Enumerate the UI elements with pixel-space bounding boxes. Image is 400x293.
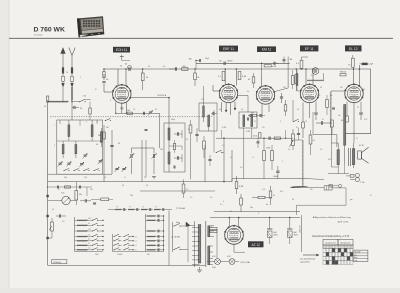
switch row R3 cap — [157, 230, 159, 233]
svg-text:0,1: 0,1 — [52, 209, 54, 211]
wire EL12 bottom drops — [346, 102, 348, 116]
svg-text:5: 5 — [282, 161, 283, 163]
wire HT bus top — [210, 217, 300, 219]
resistor top R3 — [182, 68, 189, 71]
IF2L coil b — [208, 115, 210, 126]
ground tuning — [152, 176, 156, 178]
resistor EL12 grid R — [331, 120, 334, 127]
svg-text:0,4: 0,4 — [330, 95, 332, 97]
switch row L1 coil — [77, 219, 88, 221]
coil row group 1 — [115, 209, 122, 211]
wave trap on bus — [312, 68, 319, 75]
wire EF11 top leads — [305, 69, 307, 85]
capacitor osc C3 — [142, 112, 144, 115]
capacitor mixer C5 — [110, 144, 113, 146]
svg-text:0,1µF: 0,1µF — [368, 64, 374, 66]
IF1 primary cap — [176, 132, 178, 135]
svg-text:60: 60 — [104, 177, 106, 179]
svg-text:4,5 W: 4,5 W — [359, 145, 364, 147]
wire tuning gang link — [132, 147, 155, 149]
wire lower vertical a — [204, 145, 206, 182]
resistor det series R — [274, 137, 280, 139]
resistor mixer R6 — [103, 132, 106, 139]
mains switch upper — [174, 223, 180, 226]
svg-text:60: 60 — [219, 109, 221, 111]
svg-text:901.532 A: 901.532 A — [158, 94, 167, 97]
volume potentiometer — [292, 134, 295, 146]
svg-text:3: 3 — [280, 121, 281, 123]
wire mains vertical 2 — [172, 222, 174, 252]
wire EBF11 right lead — [238, 95, 248, 97]
svg-text:EBF 11: EBF 11 — [223, 47, 234, 51]
IF1 secondary cap — [176, 156, 178, 159]
tube label EF 11 — [300, 45, 318, 51]
svg-text:60: 60 — [96, 144, 98, 146]
capacitor coupling EF-EL — [320, 121, 322, 125]
wire IF1 inner stubs — [169, 145, 182, 147]
resistor AF lower R3 — [309, 135, 312, 144]
wire IF2R bottom drops — [243, 128, 245, 179]
wire EBF to IF2R — [247, 96, 249, 113]
capacitor antenna C1 — [73, 106, 75, 109]
switch row M3 contact a — [114, 243, 119, 245]
svg-text:0,5M: 0,5M — [266, 148, 270, 150]
pack coil 1 — [68, 125, 70, 137]
svg-text:5k: 5k — [247, 91, 249, 93]
diode plate arrow 1 — [225, 110, 227, 112]
svg-text:30: 30 — [125, 64, 127, 66]
wire heater vertical — [216, 229, 218, 258]
switch osc — [105, 119, 110, 121]
wire tone links — [48, 237, 52, 239]
header rule — [9, 37, 393, 39]
IF3 coil — [296, 74, 298, 86]
svg-text:a: a — [86, 121, 87, 123]
svg-text:5,1: 5,1 — [135, 241, 137, 243]
coil row group 4 — [154, 209, 161, 211]
table header Wellenbereich — [338, 239, 353, 245]
row187 cap a — [56, 186, 58, 189]
svg-text:100: 100 — [189, 59, 192, 61]
svg-text:UKW-Teil: UKW-Teil — [299, 225, 301, 233]
svg-text:0,15: 0,15 — [280, 191, 283, 193]
svg-text:150: 150 — [84, 177, 87, 179]
wire antenna left lead — [62, 87, 64, 102]
svg-text:RM 304: RM 304 — [340, 72, 346, 74]
left page margin shading — [0, 0, 9, 293]
pilot lamp 1 — [215, 259, 221, 265]
row187 wire — [48, 186, 92, 188]
row187 drop — [86, 187, 88, 196]
svg-text:4µ: 4µ — [266, 204, 268, 206]
resistor det lower R2 — [271, 151, 274, 161]
pointer arrow — [303, 254, 317, 256]
resistor HT R2 — [258, 196, 265, 198]
svg-text:5,2: 5,2 — [88, 248, 90, 250]
svg-text:50: 50 — [80, 108, 82, 110]
svg-text:2: 2 — [80, 77, 81, 79]
power transformer secondary bottom — [208, 246, 210, 265]
trimmer osc — [149, 111, 152, 113]
output transformer core — [348, 148, 350, 166]
svg-text:1,2: 1,2 — [135, 245, 137, 247]
svg-text:30: 30 — [120, 66, 122, 68]
potentiometer tone — [51, 222, 54, 231]
trimmer row 1 — [115, 167, 118, 169]
resistor EM grid R — [252, 77, 255, 83]
svg-text:4,3: 4,3 — [62, 221, 64, 223]
switch row R5 cap — [157, 239, 159, 242]
AF return line — [290, 187, 309, 189]
resistor below bus — [182, 184, 185, 193]
wire IF1 top lead — [168, 98, 170, 124]
capacitor EL12 bypass C — [359, 112, 363, 114]
power transformer taps — [192, 226, 200, 228]
pack switch 1 — [64, 169, 69, 171]
capacitor grid C2 — [102, 81, 105, 83]
switch row R6 cap — [157, 244, 159, 247]
pack switch 3 — [84, 169, 89, 171]
switch row R5 coil — [147, 240, 156, 242]
svg-text:9,4: 9,4 — [311, 75, 314, 77]
svg-text:8,2: 8,2 — [186, 139, 188, 141]
svg-text:T. A.: T. A. — [360, 181, 365, 184]
svg-text:500: 500 — [160, 149, 163, 151]
svg-text:2,5: 2,5 — [190, 197, 192, 199]
pack top stubs — [59, 120, 61, 124]
tube ECH11 — [113, 85, 131, 103]
resistor EF11 left R — [295, 75, 298, 84]
terminal square 2 — [46, 215, 48, 217]
power transformer core — [194, 221, 196, 267]
antenna coil L1 — [71, 87, 73, 101]
switch row M3 contact b — [124, 243, 129, 245]
terminal square 3 — [46, 237, 48, 239]
svg-text:0,1: 0,1 — [135, 236, 137, 238]
svg-text:Kunstleder: Kunstleder — [34, 34, 43, 37]
switch row L2 coil — [77, 224, 88, 226]
capacitor EF11 bypass — [314, 112, 317, 114]
svg-text:2k: 2k — [198, 77, 200, 79]
IF2R coil b — [251, 115, 253, 127]
wire EF-EL coupling — [313, 134, 337, 136]
svg-text:0,1: 0,1 — [163, 66, 166, 68]
svg-text:7,5: 7,5 — [88, 234, 90, 236]
IF1 primary coil — [168, 128, 170, 140]
wire AZ12 cathode out — [233, 244, 235, 252]
svg-text:7,5k: 7,5k — [83, 96, 87, 98]
output transformer secondary — [352, 149, 354, 165]
resistor mid R 0,2M — [235, 182, 238, 189]
wire left border drop — [47, 100, 49, 265]
resistor EM11 lower R — [284, 105, 287, 111]
svg-text:350: 350 — [147, 254, 150, 256]
svg-text:5,15: 5,15 — [88, 218, 91, 220]
wire pot links — [48, 200, 62, 202]
tube label EL 12 — [345, 45, 362, 51]
svg-text:10t: 10t — [219, 60, 222, 63]
svg-text:5k: 5k — [146, 77, 148, 79]
switch det — [216, 150, 222, 152]
svg-text:1M: 1M — [183, 66, 186, 68]
svg-text:500: 500 — [64, 177, 67, 179]
speaker cone — [362, 147, 369, 163]
wire detector output line — [216, 137, 293, 139]
svg-text:4: 4 — [110, 100, 111, 102]
wire HT line upper — [214, 211, 300, 213]
antenna plug 1 — [62, 67, 64, 73]
capacitor coupling top — [174, 67, 176, 71]
IF2 left enclosure — [199, 103, 217, 131]
table header Drucktasten — [323, 239, 338, 245]
svg-text:Netz: Netz — [176, 221, 180, 224]
svg-text:1M: 1M — [290, 59, 293, 61]
tube label AZ 12 — [248, 241, 264, 247]
svg-text:350: 350 — [362, 89, 365, 91]
pack trimmer 4 — [80, 163, 83, 165]
switch row M1 contact b — [124, 234, 129, 236]
antenna arrow down 2 — [71, 83, 74, 87]
resistor below bus R — [194, 73, 197, 80]
switch row L5 coil — [77, 240, 88, 242]
capacitor EF lower — [297, 132, 300, 134]
capacitor lower C a — [84, 199, 86, 202]
tube label EBF 11 — [219, 46, 238, 52]
tube label ECH 11 — [113, 47, 130, 53]
ground ECH11 cathode — [120, 107, 124, 109]
svg-text:0,1M: 0,1M — [222, 127, 226, 129]
svg-text:2x5000: 2x5000 — [117, 254, 122, 256]
svg-text:7,7: 7,7 — [129, 206, 131, 208]
pointer line — [301, 215, 303, 252]
svg-text:1k: 1k — [273, 195, 275, 197]
resistor EF11 top R — [300, 60, 303, 68]
resistor grid R2 — [103, 72, 105, 78]
wire right HT drop — [370, 69, 372, 134]
heater resistor 1 — [209, 227, 217, 229]
resistor mid R 1k — [269, 191, 272, 198]
svg-text:50: 50 — [230, 211, 232, 213]
wire bottom border — [48, 264, 205, 266]
IF1 secondary coil — [168, 152, 170, 164]
svg-text:0,3: 0,3 — [240, 167, 242, 169]
antenna dipole symbol — [69, 48, 72, 56]
phone jack plug bar — [350, 175, 354, 178]
shielded AF lead — [302, 140, 304, 187]
svg-text:vom Schalterknopf: vom Schalterknopf — [300, 257, 316, 260]
svg-text:2,7k: 2,7k — [201, 99, 204, 101]
svg-text:Klangtasten: Klangtasten — [340, 241, 351, 244]
antenna coupling coil L2 — [48, 101, 68, 103]
wire IF2L top — [203, 86, 205, 103]
wire B+ top bus — [118, 68, 371, 70]
field coil choke — [344, 105, 346, 146]
svg-text:30: 30 — [122, 185, 124, 187]
aux socket pair — [329, 185, 332, 187]
resistor EL12 cathode R — [346, 116, 349, 122]
wire coil row link — [108, 209, 115, 211]
switch row L3 contact — [88, 230, 93, 232]
svg-text:50k: 50k — [79, 194, 82, 196]
svg-text:1,5: 1,5 — [133, 109, 135, 111]
wire OT left vertical — [330, 128, 332, 167]
table row labels — [353, 250, 368, 261]
diode plate arrow 2 — [234, 108, 236, 110]
wire EM11 bottom leads — [261, 104, 263, 118]
mains plug — [186, 222, 190, 227]
svg-text:0,1: 0,1 — [88, 223, 90, 225]
ECH11 top cap stub — [121, 55, 123, 61]
wire EM11 top lead — [261, 75, 263, 86]
pack trimmer 2 — [59, 162, 62, 164]
junction cluster above bus — [195, 60, 196, 61]
svg-text:b: b — [97, 121, 98, 123]
svg-text:50k: 50k — [127, 110, 130, 112]
IF2L cap — [212, 112, 214, 115]
IF1 inner cap — [173, 166, 175, 169]
svg-text:200: 200 — [130, 195, 133, 197]
svg-text:10: 10 — [148, 66, 150, 68]
switch row R2 cap — [157, 219, 159, 222]
power transformer primary — [198, 225, 201, 264]
svg-text:Drucktasten: Drucktasten — [325, 241, 337, 244]
svg-text:4k: 4k — [248, 79, 250, 81]
wire EF11 bottom drops — [302, 102, 304, 122]
tube EM11 — [256, 86, 274, 104]
svg-text:Lang: Lang — [354, 260, 358, 262]
switch row L4 contact — [88, 236, 93, 238]
wire mid bus — [48, 181, 232, 183]
switch row M4 contact b — [124, 248, 129, 250]
antenna arrow down 1 — [62, 83, 65, 87]
switch row R1 cap — [157, 215, 159, 218]
resistor HT R — [240, 198, 243, 205]
wire osc drop — [159, 113, 161, 148]
resistor EL12 bus R — [340, 74, 346, 76]
svg-text:0,1: 0,1 — [296, 127, 299, 129]
pack trimmer 1 — [84, 154, 87, 156]
wire lower vertical b — [223, 138, 225, 181]
svg-text:1,2k: 1,2k — [262, 189, 265, 191]
cluster near EM — [283, 59, 286, 61]
svg-text:30,5k: 30,5k — [253, 136, 257, 138]
resistor left border — [46, 96, 48, 102]
svg-text:Gezeichnete Schalterstellung: Gezeichnete Schalterstellung „U K W “ — [312, 235, 351, 238]
svg-text:30pF ± 10%: 30pF ± 10% — [338, 222, 349, 224]
svg-text:30: 30 — [155, 109, 157, 111]
wire ECH11 cathode leads — [115, 102, 117, 113]
svg-text:4: 4 — [258, 213, 259, 215]
switch row M1 contact a — [114, 234, 119, 236]
tube EBF11 — [219, 84, 237, 102]
resistor det lower R1 — [263, 151, 266, 161]
svg-text:0,1: 0,1 — [313, 140, 316, 142]
svg-text:10000: 10000 — [227, 61, 232, 63]
svg-text:80: 80 — [292, 199, 294, 201]
wire bank verticals right — [163, 216, 165, 252]
wire antenna right lead — [71, 101, 73, 121]
svg-text:30: 30 — [211, 226, 213, 228]
table data cells — [323, 248, 326, 252]
phone jack 2 — [355, 178, 359, 182]
svg-text:1,15: 1,15 — [88, 229, 91, 231]
resistor osc R 50k — [127, 112, 132, 114]
svg-text:0,1: 0,1 — [218, 76, 221, 78]
svg-text:0,1: 0,1 — [220, 204, 223, 206]
capacitor IF1R b — [195, 133, 198, 135]
capacitor EM11 C lower — [280, 96, 283, 98]
terminal square 1 — [46, 195, 48, 197]
svg-text:4,5V 2,2A~: 4,5V 2,2A~ — [240, 261, 251, 264]
resistor EL12 top R 50 — [351, 58, 354, 67]
tube EF11 — [300, 84, 318, 102]
svg-text:4,7k: 4,7k — [317, 95, 320, 97]
switch row R4 coil — [147, 236, 156, 238]
capacitor tone C2 — [58, 214, 60, 217]
junction det — [285, 138, 286, 139]
pack coil 3 — [62, 145, 64, 154]
tube AZ12 — [225, 226, 244, 245]
switch row R7 cap — [157, 248, 159, 251]
pack bottom line — [48, 173, 112, 175]
resistor bus2 R 0,5M — [264, 65, 271, 67]
wire AF return routing — [345, 188, 347, 205]
wire AZ12 anode feeds — [228, 218, 230, 227]
capacitor bus C with trimmer ring — [128, 65, 132, 69]
wire lower vertical c — [231, 150, 233, 182]
svg-text:0,2: 0,2 — [186, 189, 188, 191]
resistor mid EFEL — [326, 100, 329, 108]
speaker voice coil — [358, 151, 362, 159]
svg-text:50: 50 — [144, 177, 146, 179]
IF2 right enclosure — [239, 112, 257, 128]
wire AVC dashed bus — [50, 116, 212, 118]
resistor antenna lower — [89, 108, 91, 114]
resistor EBF screen R — [238, 72, 241, 80]
switch row L1 contact — [88, 219, 93, 221]
switch row M4 contact a — [114, 248, 119, 250]
svg-text:0,4: 0,4 — [210, 197, 212, 199]
tube EL12 — [345, 84, 363, 102]
svg-text:30: 30 — [44, 106, 46, 108]
row187 cap b — [78, 186, 80, 189]
document number box — [52, 260, 67, 264]
switch EF lower — [294, 119, 299, 121]
svg-text:50: 50 — [348, 65, 350, 67]
resistor IF1R a — [189, 125, 192, 133]
svg-text:TV 58-4A: TV 58-4A — [176, 207, 185, 210]
wire EBF11 top leads — [224, 69, 226, 85]
svg-text:50: 50 — [66, 72, 68, 74]
switch row L2 contact — [88, 224, 93, 226]
svg-text:EF 11: EF 11 — [305, 47, 314, 51]
switch row R2 coil — [147, 219, 156, 221]
wire EL12 anode to OT — [353, 142, 355, 145]
bottom scan shading — [0, 288, 400, 293]
svg-text:0,5M: 0,5M — [272, 66, 277, 68]
tube label EM 11 — [257, 46, 276, 52]
coil pack enclosure — [57, 120, 103, 174]
electrolytic cap 1 — [269, 218, 271, 230]
capacitor 10000 det — [276, 170, 279, 172]
svg-text:0,2: 0,2 — [297, 109, 299, 111]
svg-text:EL 12: EL 12 — [349, 47, 358, 51]
wire mains links — [180, 225, 188, 227]
svg-text:80: 80 — [118, 143, 120, 145]
svg-text:0,5: 0,5 — [288, 149, 290, 151]
switch row R4 cap — [157, 235, 159, 238]
wire mains vertical 1 — [168, 211, 170, 266]
